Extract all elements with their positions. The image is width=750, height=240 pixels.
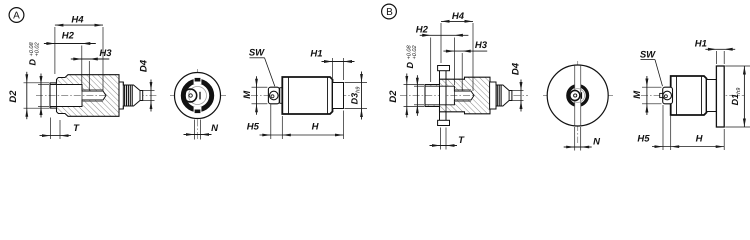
B bushing body outline (sectioned): [425, 77, 490, 114]
dimension D2 (B): [404, 84, 425, 86]
A front view flats: [195, 78, 201, 82]
svg-text:H2: H2: [62, 31, 75, 42]
B bushing flange rim feet: [438, 66, 450, 71]
A front view bold ring: [183, 81, 211, 109]
svg-text:+0.02: +0.02: [412, 44, 418, 59]
variant label A (circled): [9, 8, 24, 23]
dimension H5 and H (A): [270, 105, 272, 140]
B front view pin circle: [570, 91, 580, 101]
svg-text:SW: SW: [640, 49, 656, 60]
svg-text:N: N: [593, 137, 601, 148]
B bushing threaded end with cone tip: [490, 82, 512, 109]
svg-text:H1: H1: [695, 39, 707, 50]
svg-text:H3: H3: [475, 40, 488, 51]
dimension H1 (A): [332, 58, 334, 78]
dimension H4 (B): [440, 23, 442, 63]
dimension N (A): [194, 120, 196, 140]
svg-text:H: H: [312, 122, 320, 133]
svg-text:H5: H5: [637, 133, 650, 144]
dimension D with tolerance: [38, 84, 49, 86]
svg-text:D2: D2: [8, 90, 19, 103]
A front view pin circle: [184, 89, 197, 102]
svg-text:M: M: [242, 90, 253, 99]
dimension H1 (B): [715, 51, 717, 64]
A bushing centerline: [36, 95, 157, 97]
dimension H3 (B): [461, 53, 463, 91]
svg-text:D2: D2: [388, 90, 399, 103]
dimension N (B): [574, 127, 576, 151]
variant label B (circled): [382, 4, 397, 19]
svg-text:D: D: [405, 62, 415, 69]
dimension H4: [54, 27, 56, 74]
svg-text:H4: H4: [71, 14, 84, 25]
svg-text:B: B: [386, 7, 393, 18]
A plunger lock nut: [268, 87, 279, 104]
svg-text:H4: H4: [452, 11, 465, 22]
A plunger body: [282, 77, 332, 114]
A plunger centerline: [251, 95, 352, 97]
svg-text:+0.02: +0.02: [35, 41, 41, 56]
svg-text:D: D: [28, 59, 38, 66]
dimension H2 (B): [430, 38, 432, 83]
A bushing internal steps: [56, 79, 58, 111]
svg-text:D4: D4: [139, 59, 150, 72]
dimension H2: [81, 46, 83, 85]
B plunger neck: [707, 80, 717, 112]
A plunger washer: [280, 88, 282, 104]
B plunger body: [671, 76, 707, 115]
svg-text:N: N: [211, 123, 219, 134]
dimension D4 (B): [512, 90, 524, 92]
A front view centerlines: [170, 95, 226, 97]
dimension D2: [24, 82, 50, 84]
B front view flats lines: [574, 66, 576, 126]
svg-text:H3: H3: [99, 48, 112, 59]
A bushing threaded end with cone tip: [119, 82, 143, 109]
B plunger centerline: [641, 95, 744, 97]
B front view centerlines: [543, 95, 613, 97]
A front view pin center circle: [189, 94, 192, 97]
A front view bore circle: [189, 87, 207, 105]
dimension D1 h9: [725, 65, 750, 67]
dimension H5 and H (B): [662, 105, 664, 150]
dimension D3 h9: [345, 82, 368, 84]
dimension T (B): [440, 128, 442, 150]
A front view pin flat line: [199, 92, 201, 100]
svg-text:SW: SW: [249, 48, 265, 59]
svg-text:D4: D4: [511, 62, 522, 75]
dimension T: [50, 118, 52, 140]
B plunger pin nub: [660, 93, 664, 97]
svg-text:A: A: [13, 11, 20, 22]
B bushing centerline: [400, 95, 528, 97]
B plunger knob disc D1: [716, 66, 724, 127]
dimension D with tolerance (B): [414, 85, 424, 87]
svg-text:H1: H1: [310, 49, 322, 60]
svg-text:M: M: [632, 90, 643, 99]
svg-text:H2: H2: [416, 24, 429, 35]
B front view outer circle (flange): [547, 65, 608, 126]
A plunger pin ball: [270, 91, 279, 100]
B front view mid circle: [571, 89, 585, 103]
B plunger lock nut: [663, 87, 673, 104]
dimension H3: [88, 61, 90, 91]
dimension D4: [143, 90, 155, 92]
dimension M (B): [642, 86, 662, 88]
svg-text:H: H: [696, 133, 704, 144]
svg-text:H5: H5: [247, 122, 260, 133]
B front view pin center circle: [574, 94, 577, 97]
A front view ring notches: [194, 78, 202, 85]
A front view outer circle: [175, 73, 221, 119]
B bushing internal steps: [439, 79, 441, 112]
B plunger pin ball: [663, 91, 672, 100]
B front view pin flat line: [581, 92, 583, 99]
A bushing outline (sectioned): [50, 75, 119, 117]
B front view bold ring: [568, 86, 588, 106]
dimension M (A): [252, 86, 268, 88]
A plunger shank D3: [333, 83, 344, 109]
B bushing flange plate: [440, 66, 447, 126]
